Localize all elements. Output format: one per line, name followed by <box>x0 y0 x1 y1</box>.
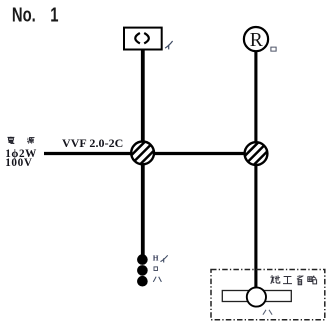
wire: right junction down to omitted fixture <box>254 164 257 287</box>
omitted-work dash-dot box <box>211 270 325 320</box>
switch dot ロ <box>137 265 148 276</box>
svg-text:H: H <box>153 253 159 262</box>
text 施 of 施工省略 <box>270 275 279 284</box>
lamp receptacle R <box>244 27 268 51</box>
fluorescent fixture circle <box>247 287 266 306</box>
svg-text:R: R <box>250 30 263 51</box>
svg-text:1: 1 <box>50 3 58 26</box>
label ロ for receptacle <box>271 47 276 51</box>
text 略 of 施工省略 <box>308 276 317 284</box>
text 省 of 施工省略 <box>297 275 304 285</box>
label ハ for fluorescent <box>263 310 272 315</box>
wire: left junction to right junction <box>153 152 245 155</box>
svg-text:VVF 2.0-2C: VVF 2.0-2C <box>62 136 123 150</box>
label イ for fixture <box>165 41 173 49</box>
power source text 電 <box>7 137 14 144</box>
fluorescent fixture band <box>222 291 291 302</box>
ceiling rose fixture box (hikkake ceiling, angle type) <box>124 28 162 50</box>
wire: left junction down to switches <box>141 163 145 255</box>
switch dot ハ <box>137 276 148 287</box>
svg-text:100V: 100V <box>5 157 32 169</box>
text 工 of 施工省略 <box>283 277 292 284</box>
junction box JB1 (hatched circle) <box>127 137 158 168</box>
wire: ceiling box down to left junction <box>141 49 145 142</box>
power source text 源 <box>27 137 34 143</box>
junction box JB2 (hatched circle) <box>241 138 272 169</box>
label ロ for switch <box>154 267 158 271</box>
label ハ for switch <box>153 277 161 282</box>
left parenthesis of fixture symbol <box>135 33 140 43</box>
label イ for switch <box>161 255 168 262</box>
wire: power source to left junction <box>44 152 132 155</box>
wire: lamp receptacle down to right junction <box>254 50 257 143</box>
right parenthesis of fixture symbol <box>144 33 149 43</box>
switch dot イ (with H marking) <box>137 254 148 265</box>
svg-text:No.: No. <box>12 3 36 26</box>
